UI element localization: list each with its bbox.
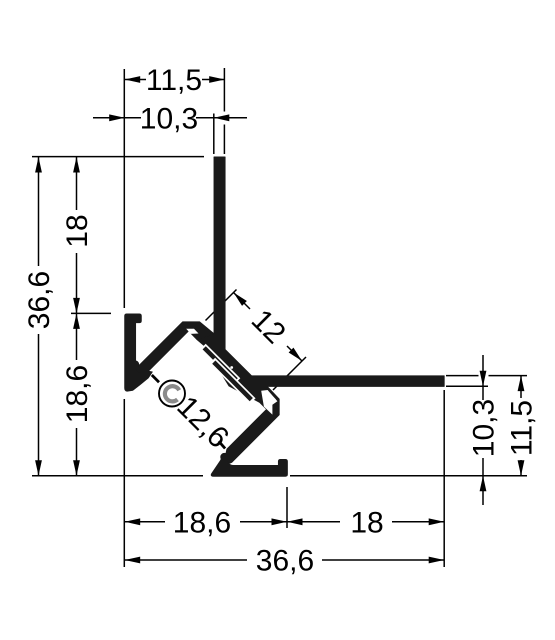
- svg-text:18: 18: [350, 506, 383, 539]
- dimension 18,6 left: [61, 313, 94, 475]
- white notch 1 under lip: [186, 329, 198, 334]
- extension line right horizontal y=386.3: [446, 385, 488, 387]
- white dot: [230, 366, 233, 369]
- dimension leader 12,6 diagonal with copyright: [152, 375, 235, 455]
- extension line mid-left horizontal y=313: [71, 312, 111, 314]
- svg-text:12: 12: [245, 303, 292, 350]
- extension line vertical x=444.2 bottom-right: [443, 390, 445, 567]
- svg-text:36,6: 36,6: [256, 545, 314, 578]
- svg-text:10,3: 10,3: [140, 102, 198, 135]
- extension line right horizontal y=375.6 right part: [489, 375, 528, 377]
- svg-text:11,5: 11,5: [146, 64, 202, 97]
- svg-text:11,5: 11,5: [506, 400, 539, 456]
- extension line vertical x=224.4 top lower: [223, 125, 225, 155]
- extension line vertical x=124.3 lower: [123, 399, 125, 567]
- extension line vertical x=124.3 upper: [123, 69, 125, 308]
- led bar 1 black core: [203, 346, 238, 381]
- dimension 11,5 right: [506, 376, 539, 476]
- svg-text:36,6: 36,6: [23, 271, 56, 329]
- foot (bottom cover clip): [211, 453, 287, 476]
- dimension 18,6 bottom: [125, 506, 287, 539]
- extension line bottom horizontal y=475.7 right part: [290, 475, 527, 477]
- dimension 36,6 left: [23, 157, 56, 476]
- extension line top-left horizontal y=157: [32, 156, 204, 158]
- finger 2 blade with bent lip: [226, 385, 280, 464]
- dimension 18 bottom: [287, 506, 444, 539]
- led bar 1 white frame: [200, 344, 240, 384]
- svg-text:18: 18: [61, 214, 94, 247]
- svg-text:12,6: 12,6: [170, 390, 235, 455]
- extension line diagonal for dim 12 lower: [273, 357, 306, 390]
- dimension 10,3 top: [93, 102, 247, 135]
- svg-text:18,6: 18,6: [173, 506, 231, 539]
- dimension 11,5 top: [125, 64, 225, 97]
- finger 1 blade with bent lip: [136, 322, 215, 373]
- extension line bottom horizontal y=475.7 left part: [32, 475, 203, 477]
- extension line right horizontal y=375.6 left part: [446, 375, 479, 377]
- led bar 2 black core: [212, 361, 253, 402]
- extension line vertical x=213.8 top: [213, 114, 215, 155]
- dimension 10,3 right: [468, 355, 501, 505]
- white notch 2: [261, 390, 277, 415]
- extension line vertical x=287 bottom: [286, 487, 288, 528]
- main mass: vertical leg + back corner + horizontal leg: [191, 157, 444, 410]
- svg-text:18,6: 18,6: [61, 365, 94, 423]
- svg-text:10,3: 10,3: [468, 399, 501, 457]
- extension line diagonal for dim 12 upper: [206, 290, 237, 321]
- dimension 18 left: [61, 157, 94, 313]
- copyright symbol: [159, 381, 185, 407]
- hook (left cover clip): [125, 314, 153, 391]
- dimension 12 diagonal: [231, 290, 304, 363]
- extension line vertical x=224.4 top upper: [223, 68, 225, 112]
- dimension 36,6 bottom: [125, 545, 445, 578]
- led bar 2 white frame: [210, 358, 256, 404]
